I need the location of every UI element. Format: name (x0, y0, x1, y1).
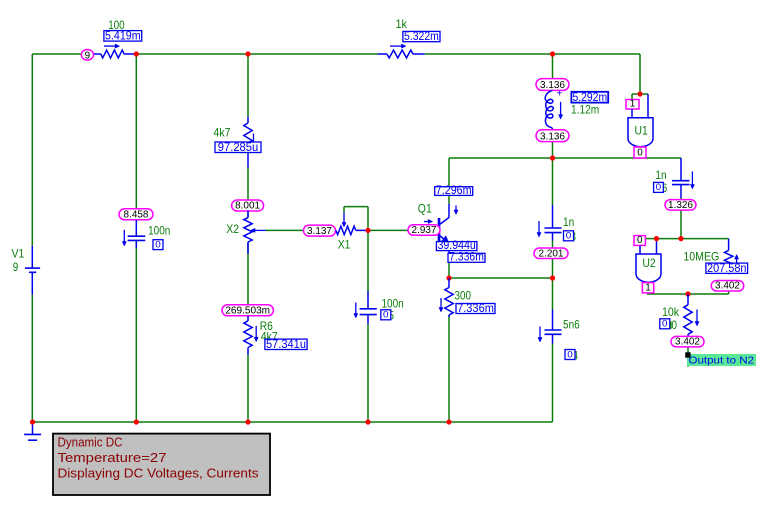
svg-text:0: 0 (383, 310, 389, 321)
svg-text:1: 1 (645, 282, 651, 293)
svg-text:3.402: 3.402 (675, 337, 700, 348)
svg-text:U1: U1 (635, 124, 649, 138)
svg-text:U2: U2 (642, 256, 656, 270)
svg-text:0: 0 (637, 148, 643, 159)
svg-text:X2: X2 (226, 222, 239, 236)
svg-text:0: 0 (566, 231, 572, 242)
svg-text:0: 0 (662, 319, 668, 330)
svg-text:3.402: 3.402 (715, 281, 740, 292)
svg-text:0: 0 (155, 239, 161, 250)
svg-text:9: 9 (13, 260, 19, 274)
svg-text:2.201: 2.201 (539, 248, 564, 259)
svg-text:2.937: 2.937 (412, 225, 437, 236)
svg-text:4k7: 4k7 (214, 126, 231, 140)
svg-text:Displaying DC Voltages, Curren: Displaying DC Voltages, Currents (58, 466, 259, 480)
svg-text:100n: 100n (148, 224, 170, 238)
svg-text:5.322m: 5.322m (404, 29, 439, 43)
svg-text:+: + (557, 89, 563, 100)
svg-text:1.326: 1.326 (668, 200, 693, 211)
svg-text:0: 0 (637, 235, 643, 246)
svg-text:Q1: Q1 (418, 202, 432, 216)
svg-text:Temperature=27: Temperature=27 (58, 451, 167, 465)
svg-text:1: 1 (630, 99, 636, 110)
svg-text:57.341u: 57.341u (266, 337, 306, 351)
svg-text:7.336m: 7.336m (457, 301, 494, 315)
svg-text:5.419m: 5.419m (105, 29, 141, 43)
svg-text:1n: 1n (563, 215, 574, 229)
svg-text:5n6: 5n6 (563, 318, 580, 332)
svg-text:0: 0 (567, 349, 573, 360)
svg-text:Dynamic DC: Dynamic DC (58, 436, 123, 450)
svg-text:V1: V1 (12, 246, 25, 260)
svg-text:8.458: 8.458 (124, 210, 149, 221)
svg-text:7.336m: 7.336m (449, 250, 484, 264)
svg-text:0: 0 (672, 318, 678, 332)
svg-text:207.58n: 207.58n (707, 261, 747, 275)
svg-text:9: 9 (85, 50, 91, 61)
svg-text:269.503m: 269.503m (225, 306, 270, 317)
svg-text:7.296m: 7.296m (436, 183, 472, 197)
svg-text:3.137: 3.137 (307, 226, 332, 237)
svg-text:97.285u: 97.285u (218, 140, 258, 154)
svg-text:1.12m: 1.12m (571, 103, 599, 117)
svg-text:8.001: 8.001 (235, 201, 260, 212)
svg-text:Output to N2: Output to N2 (689, 354, 755, 366)
svg-text:X1: X1 (338, 237, 351, 251)
svg-text:3.136: 3.136 (540, 131, 565, 142)
svg-text:0: 0 (656, 182, 662, 193)
